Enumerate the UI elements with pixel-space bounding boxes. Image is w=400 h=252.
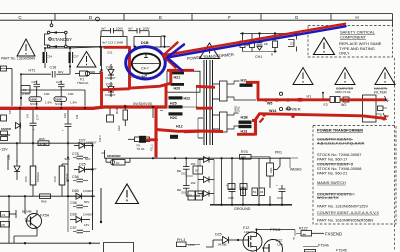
arrow on emitter — [35, 226, 38, 228]
O POWER contact — [279, 107, 282, 110]
svg-text:PH-3: PH-3 — [177, 238, 185, 242]
left winding brackets — [197, 86, 204, 88]
svg-text:T500mA: T500mA — [77, 81, 88, 85]
right page border — [392, 14, 394, 26]
vertical rails — [197, 160, 199, 194]
red arrow barb upper — [163, 43, 178, 56]
svg-text:60V: 60V — [58, 70, 63, 74]
svg-text:100K: 100K — [30, 97, 38, 101]
diode D65 — [76, 193, 82, 199]
svg-text:C62: C62 — [181, 172, 187, 176]
svg-text:ZD5: ZD5 — [7, 154, 11, 160]
rail wires — [67, 164, 69, 196]
svg-text:1000uF: 1000uF — [36, 172, 40, 182]
FET T12 circle — [243, 232, 262, 251]
svg-text:C98: C98 — [70, 201, 77, 205]
vertical drops to bus — [36, 90, 38, 97]
svg-text:C97: C97 — [70, 226, 77, 230]
svg-text:1N4007: 1N4007 — [105, 76, 116, 80]
red junction blobs — [71, 98, 386, 142]
tiny labels below bus — [8, 109, 79, 132]
red horizontal into W13 riser — [237, 133, 256, 136]
blue arrow barb upper — [167, 45, 184, 58]
header labels — [18, 15, 358, 20]
svg-text:D19: D19 — [106, 82, 113, 86]
hanging diodes left — [204, 191, 210, 197]
transformer core lines — [203, 60, 205, 145]
svg-text:C18: C18 — [50, 66, 57, 70]
resistor R75 — [240, 155, 252, 160]
svg-text:FTS4h: FTS4h — [318, 244, 329, 248]
red riser to W21 row — [169, 70, 172, 83]
svg-text:G: G — [295, 15, 299, 20]
svg-text:H13: H13 — [241, 129, 248, 133]
junction dots — [20, 45, 136, 75]
red lower feed wire — [259, 114, 363, 116]
small comps right of filter — [378, 106, 384, 111]
L tick top — [385, 96, 388, 102]
svg-text:FX5H: FX5H — [40, 214, 50, 218]
svg-text:NV13: NV13 — [55, 102, 63, 106]
standby node circle — [49, 38, 52, 41]
safety triangle — [314, 38, 335, 55]
svg-text:10: 10 — [116, 161, 120, 165]
small box right O2 — [193, 166, 203, 174]
FTS41 wire — [257, 229, 296, 231]
svg-text:BC54B: BC54B — [22, 210, 32, 214]
wire left of triangle — [100, 188, 102, 222]
capacitor C61 — [183, 185, 190, 187]
svg-text:E: E — [159, 15, 162, 20]
svg-text:STANDBY: STANDBY — [52, 37, 72, 42]
small component boxes row — [240, 41, 245, 48]
svg-text:PART No. 1610NRN05N(R55BN: PART No. 1610NRN05N(R55BN — [317, 217, 373, 222]
svg-text:##: ## — [303, 232, 307, 236]
vertical wire x153 — [152, 108, 154, 118]
resistor R1B below bus — [123, 110, 128, 120]
electrolytic C60 — [59, 166, 65, 185]
electrolytic C37 — [68, 52, 70, 63]
svg-text:+: + — [33, 128, 35, 132]
capacitor C18 plates — [51, 71, 53, 78]
svg-text:+: + — [276, 183, 278, 187]
F2 component boxes — [330, 97, 335, 103]
svg-text:C1: C1 — [2, 213, 6, 217]
border header bottom line — [0, 19, 393, 21]
svg-text:4x7 C13 2.2MM: 4x7 C13 2.2MM — [102, 41, 124, 45]
diode D19 — [108, 82, 114, 97]
wire to right boxes — [186, 175, 193, 177]
svg-text:FXSEND: FXSEND — [325, 231, 342, 236]
svg-text:1N4007: 1N4007 — [105, 93, 116, 97]
svg-text:POWER TRANSFORMER: POWER TRANSFORMER — [317, 128, 363, 133]
diode D25 — [79, 167, 85, 173]
node circle — [50, 24, 53, 27]
svg-text:21R: 21R — [117, 125, 121, 131]
winding connection brackets — [213, 83, 220, 85]
blue arrow barb lower — [167, 58, 182, 71]
wire below — [145, 74, 147, 77]
svg-text:CH1: CH1 — [255, 55, 262, 59]
wire through component row — [67, 46, 126, 48]
capacitor C97 — [77, 229, 84, 231]
svg-text:COMPONENT: COMPONENT — [340, 35, 367, 40]
left edge tiny labels — [1, 127, 12, 137]
svg-text:NV05: NV05 — [30, 102, 38, 106]
component drops — [242, 34, 244, 42]
svg-text:100K: 100K — [55, 97, 63, 101]
svg-text:H21: H21 — [174, 75, 181, 79]
transistor T1 circle — [27, 214, 42, 229]
W13 bar — [239, 125, 252, 128]
svg-text:D25: D25 — [79, 163, 86, 167]
warning triangle mid — [77, 52, 96, 68]
primary winding box lower — [220, 112, 228, 132]
svg-text:FTS45: FTS45 — [336, 249, 347, 252]
svg-text:4x7: 4x7 — [101, 26, 106, 30]
resistor R65 — [38, 141, 49, 146]
primary winding box upper — [220, 81, 228, 101]
small box left mid — [21, 86, 30, 94]
svg-text:C66: C66 — [24, 176, 28, 182]
svg-text:R1B: R1B — [115, 108, 119, 114]
right page dashed border — [394, 58, 396, 250]
svg-text:GROUND: GROUND — [234, 207, 251, 211]
svg-text:1N4007: 1N4007 — [86, 167, 97, 171]
capacitor C35 — [34, 83, 41, 85]
capacitor C78 — [77, 155, 84, 157]
fuse F5 — [135, 137, 150, 142]
diode D18 — [101, 47, 115, 80]
verticals below y196 — [8, 196, 10, 243]
wire HT1 row — [21, 73, 51, 75]
svg-text:W2: W2 — [341, 103, 346, 107]
svg-text:D1B: D1B — [106, 65, 114, 69]
resistor R? 100K right — [54, 97, 67, 102]
wire row y143 — [0, 142, 93, 144]
red lower feed through filter — [362, 116, 384, 119]
W15 bar — [239, 121, 252, 124]
svg-text:51: 51 — [253, 190, 257, 194]
resistor R66 — [40, 194, 51, 199]
wire row y196 — [0, 195, 95, 197]
safety text — [339, 30, 382, 56]
svg-text:F: F — [228, 15, 231, 20]
fuse F1 — [75, 71, 95, 76]
svg-text:H25: H25 — [170, 102, 177, 106]
bottom rail of cluster — [243, 51, 278, 53]
verticals — [16, 143, 18, 162]
switch arrow heads — [52, 31, 57, 47]
electrolytic C34 — [42, 52, 44, 63]
border header top line — [0, 13, 393, 15]
hanging parts above ground — [221, 196, 223, 205]
svg-text:C77: C77 — [36, 114, 40, 120]
svg-text:PART No. 960-21: PART No. 960-21 — [317, 170, 347, 175]
red end tick L — [383, 116, 387, 120]
svg-text:POWER: POWER — [286, 107, 301, 112]
svg-text:S1: S1 — [189, 194, 193, 198]
junction dots — [8, 142, 91, 244]
resistor R? 100K left — [29, 97, 42, 102]
red W15 to lower feed wire — [255, 114, 260, 121]
svg-text:H1B: H1B — [241, 116, 249, 120]
junction dot — [100, 221, 102, 223]
capacitor C98 — [77, 204, 84, 206]
wire cap C32 — [101, 30, 111, 32]
svg-text:1.9%: 1.9% — [45, 101, 52, 105]
capacitor C47 plates — [65, 123, 72, 125]
small box right O20 — [188, 191, 195, 200]
wire row y243 — [0, 242, 100, 244]
capacitor C63 — [229, 188, 236, 190]
svg-text:H20: H20 — [174, 87, 181, 91]
blue arrow shaft diagonal — [167, 26, 346, 57]
svg-text:F2L1: F2L1 — [98, 135, 102, 142]
svg-text:H22: H22 — [184, 96, 191, 100]
O power right contact — [287, 107, 290, 110]
W2 component — [343, 97, 349, 102]
svg-text:03: 03 — [260, 190, 264, 194]
svg-text:1N4007: 1N4007 — [83, 213, 94, 217]
svg-text:10k: 10k — [63, 113, 67, 118]
svg-text:W,C,L,M,T,X: W,C,L,M,T,X — [317, 195, 339, 200]
svg-text:100V: 100V — [143, 26, 150, 30]
svg-text:C68: C68 — [228, 196, 234, 200]
red W10 link — [246, 82, 258, 100]
red upper feed after F2 — [340, 98, 385, 101]
W21 bar — [171, 72, 185, 75]
wire top rail — [240, 33, 297, 35]
svg-text:D28: D28 — [70, 213, 77, 217]
wire W25 to transformer — [160, 107, 198, 111]
W2C bar — [169, 112, 183, 115]
svg-text:R66: R66 — [41, 200, 47, 204]
svg-text:1Mr: 1Mr — [191, 162, 196, 166]
PH3 box bottom middle — [177, 242, 201, 247]
svg-text:C78: C78 — [72, 152, 79, 156]
small box bottom — [305, 250, 316, 252]
svg-text:1.9%: 1.9% — [70, 101, 77, 105]
svg-text:D25: D25 — [215, 233, 222, 237]
svg-text:W14: W14 — [269, 109, 276, 113]
svg-text:R75: R75 — [241, 150, 248, 154]
svg-text:L: L — [388, 98, 390, 102]
svg-text:FTS41: FTS41 — [270, 228, 281, 232]
red horizontal to x166 — [129, 83, 172, 88]
warning triangle left — [17, 39, 35, 56]
vertical from R75 — [231, 158, 233, 185]
wire row y90 — [21, 89, 85, 91]
svg-text:MV05R: MV05R — [1, 127, 12, 131]
W22 bar — [169, 96, 183, 99]
svg-text:H11: H11 — [241, 79, 247, 83]
svg-text:R122: R122 — [299, 227, 308, 231]
svg-text:D27: D27 — [79, 139, 86, 143]
pot wiper arrow — [274, 169, 278, 171]
svg-text:C34: C34 — [47, 55, 53, 59]
vertical wire right of D1B box — [164, 36, 166, 47]
info box dashed border — [313, 126, 396, 225]
svg-text:MAINS SWITCH: MAINS SWITCH — [317, 180, 346, 185]
box C13 — [101, 37, 128, 48]
diode D28 — [76, 217, 82, 223]
zener ZD5 — [14, 166, 20, 172]
header cell separators — [54, 14, 56, 21]
svg-text:C61: C61 — [181, 191, 187, 195]
svg-text:F1L1: F1L1 — [150, 144, 154, 151]
svg-text:C1: C1 — [290, 42, 294, 46]
switch S1b wire — [50, 46, 65, 48]
zener at left edge — [16, 123, 21, 129]
capacitor C25 — [58, 83, 65, 85]
svg-text:Z8: Z8 — [264, 42, 268, 46]
svg-text:1Mr: 1Mr — [191, 181, 196, 185]
svg-text:H2C: H2C — [170, 116, 178, 120]
svg-text:C31: C31 — [107, 51, 113, 55]
wire top of caps C34/C37 — [45, 47, 102, 74]
red tick at W top — [260, 118, 264, 123]
svg-text:C25: C25 — [56, 80, 62, 84]
small boxes bottom-left — [1, 212, 10, 218]
L tick bottom — [383, 113, 387, 120]
red vertical left of degauss circle — [128, 46, 131, 88]
svg-text:C10: C10 — [277, 196, 283, 200]
wire WBIAS — [280, 157, 298, 159]
box D1B — [134, 37, 161, 48]
diode D25b — [223, 237, 229, 244]
svg-text:COUNTRY IDENT- A,D,E,A,K,S,V,X: COUNTRY IDENT- A,D,E,A,K,S,V,X — [317, 210, 379, 215]
svg-text:11%: 11% — [277, 243, 283, 247]
W10 bar — [240, 84, 253, 87]
svg-text:C4-7: C4-7 — [141, 67, 149, 71]
O contact upper — [279, 92, 282, 95]
svg-text:4x7: 4x7 — [128, 26, 133, 30]
switch S1a wire — [50, 32, 65, 34]
svg-text:47R: 47R — [241, 155, 247, 159]
svg-text:100V: 100V — [116, 26, 123, 30]
red stub into transformer lower — [196, 107, 213, 110]
wire cap C33 — [128, 30, 137, 32]
capacitor C33 plates — [136, 28, 138, 33]
bracket wires winding to bars — [227, 81, 256, 129]
W12 bar — [170, 135, 178, 139]
svg-text:ONLY: ONLY — [339, 51, 350, 56]
red jog to bus — [100, 89, 103, 107]
svg-text:50V: 50V — [84, 200, 89, 204]
svg-text:22K: 22K — [269, 168, 273, 173]
svg-text:-15V: -15V — [0, 148, 8, 152]
red branch F5 to vertical — [146, 138, 156, 141]
box bottom mid — [104, 243, 134, 252]
svg-text:C60: C60 — [53, 176, 57, 182]
capacitor C77 plates — [30, 122, 37, 124]
svg-text:C35: C35 — [32, 80, 38, 84]
svg-text:H1: H1 — [307, 94, 312, 98]
svg-text:10R: 10R — [68, 92, 74, 96]
svg-text:MIN05MR: MIN05MR — [107, 154, 121, 158]
svg-text:11%: 11% — [244, 230, 250, 234]
wire bend from left — [206, 240, 213, 247]
vertical drops below bus — [19, 109, 21, 143]
capacitor C58 — [77, 178, 84, 180]
connector bar left of F5 — [140, 136, 146, 142]
red branch to W12 and across to W13 riser — [156, 130, 223, 132]
red upper feed wire — [257, 98, 330, 101]
red wire top to degauss — [104, 46, 130, 49]
bracket C right — [288, 40, 294, 47]
wire left edge row — [88, 71, 95, 73]
electrolytic C66 — [30, 166, 36, 185]
svg-text:WBIAS: WBIAS — [290, 168, 302, 172]
svg-text:+15V: +15V — [188, 243, 195, 247]
svg-text:10: 10 — [23, 88, 27, 92]
svg-text:PART No. 1310N05NXP125V: PART No. 1310N05NXP125V — [317, 203, 368, 208]
red W12 segment — [184, 130, 201, 134]
left small boxes — [1, 131, 8, 135]
svg-text:C37: C37 — [73, 55, 79, 59]
svg-text:W5: W5 — [267, 101, 272, 105]
svg-text:1M: 1M — [75, 114, 79, 119]
svg-text:D1B: D1B — [141, 41, 149, 45]
svg-text:50V: 50V — [85, 157, 90, 161]
red wire W21 row — [167, 69, 194, 72]
svg-text:H: H — [355, 15, 358, 20]
svg-text:04JuB: 04JuB — [218, 243, 227, 247]
FTS45 wire — [303, 246, 318, 248]
box left edge — [1, 66, 7, 71]
GROUND bus bar — [210, 204, 292, 206]
W20 bar — [171, 83, 185, 86]
W25 bar — [169, 105, 183, 108]
resistor R122 box — [301, 231, 312, 237]
red vertical x166 to bus — [165, 85, 168, 108]
svg-text:16V: 16V — [84, 223, 89, 227]
svg-text:10R: 10R — [44, 92, 50, 96]
wire R75 to pot — [251, 156, 270, 158]
svg-text:1N4007: 1N4007 — [86, 141, 97, 145]
svg-text:D65: D65 — [72, 189, 79, 193]
vertical wires — [20, 74, 22, 90]
red stub into transformer upper — [196, 86, 215, 87]
punch hole circle in header — [96, 17, 100, 21]
svg-text:+: + — [62, 128, 64, 132]
svg-text:R65: R65 — [39, 137, 45, 141]
wire row y158 — [105, 157, 291, 159]
svg-text:T6.3A: T6.3A — [137, 147, 145, 151]
bracket wire — [45, 34, 49, 45]
svg-text:[#]: [#] — [2, 223, 6, 227]
mains filter box — [363, 95, 377, 122]
wires left edge — [0, 68, 6, 70]
wire fuse to red vertical — [95, 73, 102, 75]
svg-text:F8: F8 — [102, 151, 106, 155]
red drop from bus to fuse F5 — [154, 107, 157, 158]
svg-text:HT1: HT1 — [29, 69, 36, 73]
warning triangle G1 — [293, 68, 313, 85]
diode D27 — [79, 143, 85, 149]
wire thermistor leads — [106, 161, 111, 163]
red riser W13 to W15 — [252, 121, 256, 136]
svg-text:PART No. 1310005NN: PART No. 1310005NN — [1, 57, 35, 61]
capacitor C62 — [183, 166, 190, 168]
svg-text:0V(S)/0V(S): 0V(S)/0V(S) — [133, 102, 152, 106]
junction dots — [99, 35, 165, 48]
svg-text:A,B,C,D,E,F,G,H,P,Q,JUCK: A,B,C,D,E,F,G,H,P,Q,JUCK — [317, 141, 365, 146]
red vertical from fuse F1 — [102, 72, 130, 90]
component body (posistor) — [132, 54, 160, 74]
thermistor box — [113, 160, 126, 166]
